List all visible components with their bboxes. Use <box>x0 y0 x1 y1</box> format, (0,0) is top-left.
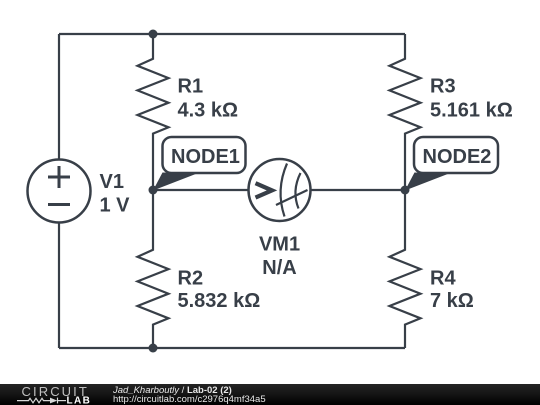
svg-text:NODE2: NODE2 <box>423 146 492 168</box>
node junction dot bottom <box>149 344 158 353</box>
node A (NODE1 junction) <box>149 186 158 195</box>
wire top rail <box>59 33 405 35</box>
node junction dot top <box>149 30 158 39</box>
svg-text:LAB: LAB <box>67 395 92 405</box>
svg-text:R1: R1 <box>178 76 204 98</box>
svg-text:VM1: VM1 <box>259 234 300 256</box>
svg-text:1 V: 1 V <box>100 195 131 217</box>
svg-text:5.161 kΩ: 5.161 kΩ <box>430 100 513 122</box>
wire bottom rail <box>59 347 405 349</box>
footer bar <box>0 384 540 405</box>
footer url line <box>113 395 266 405</box>
node B (NODE2 junction) <box>401 186 410 195</box>
NODE1 callout flag <box>163 137 246 173</box>
svg-text:5.832 kΩ: 5.832 kΩ <box>178 290 261 312</box>
resistor R3 <box>390 34 421 190</box>
svg-text:4.3 kΩ: 4.3 kΩ <box>178 100 239 122</box>
NODE2 callout tail <box>405 173 449 191</box>
resistor R4 <box>390 190 421 348</box>
wire left branch upper (top rail to V1) <box>58 34 60 160</box>
svg-text:7 kΩ: 7 kΩ <box>430 290 474 312</box>
resistor R1 <box>138 34 169 190</box>
svg-text:V1: V1 <box>100 171 124 193</box>
svg-text:R2: R2 <box>178 268 204 290</box>
svg-text:NODE1: NODE1 <box>171 146 240 168</box>
CircuitLab logo <box>0 384 100 405</box>
wire middle rail left (NODE1 to voltmeter) <box>153 189 249 191</box>
NODE1 callout tail <box>153 173 197 191</box>
svg-text:R3: R3 <box>430 76 456 98</box>
NODE2 callout flag <box>414 137 498 173</box>
voltmeter VM1 <box>249 159 311 221</box>
wire middle rail right (voltmeter to NODE2) <box>311 189 406 191</box>
svg-text:R4: R4 <box>430 268 456 290</box>
resistor R2 <box>138 190 169 348</box>
footer credit line <box>113 386 232 396</box>
wire left branch lower (V1 to bottom rail) <box>58 223 60 349</box>
voltage source V1 <box>28 160 91 223</box>
svg-text:N/A: N/A <box>262 257 296 279</box>
